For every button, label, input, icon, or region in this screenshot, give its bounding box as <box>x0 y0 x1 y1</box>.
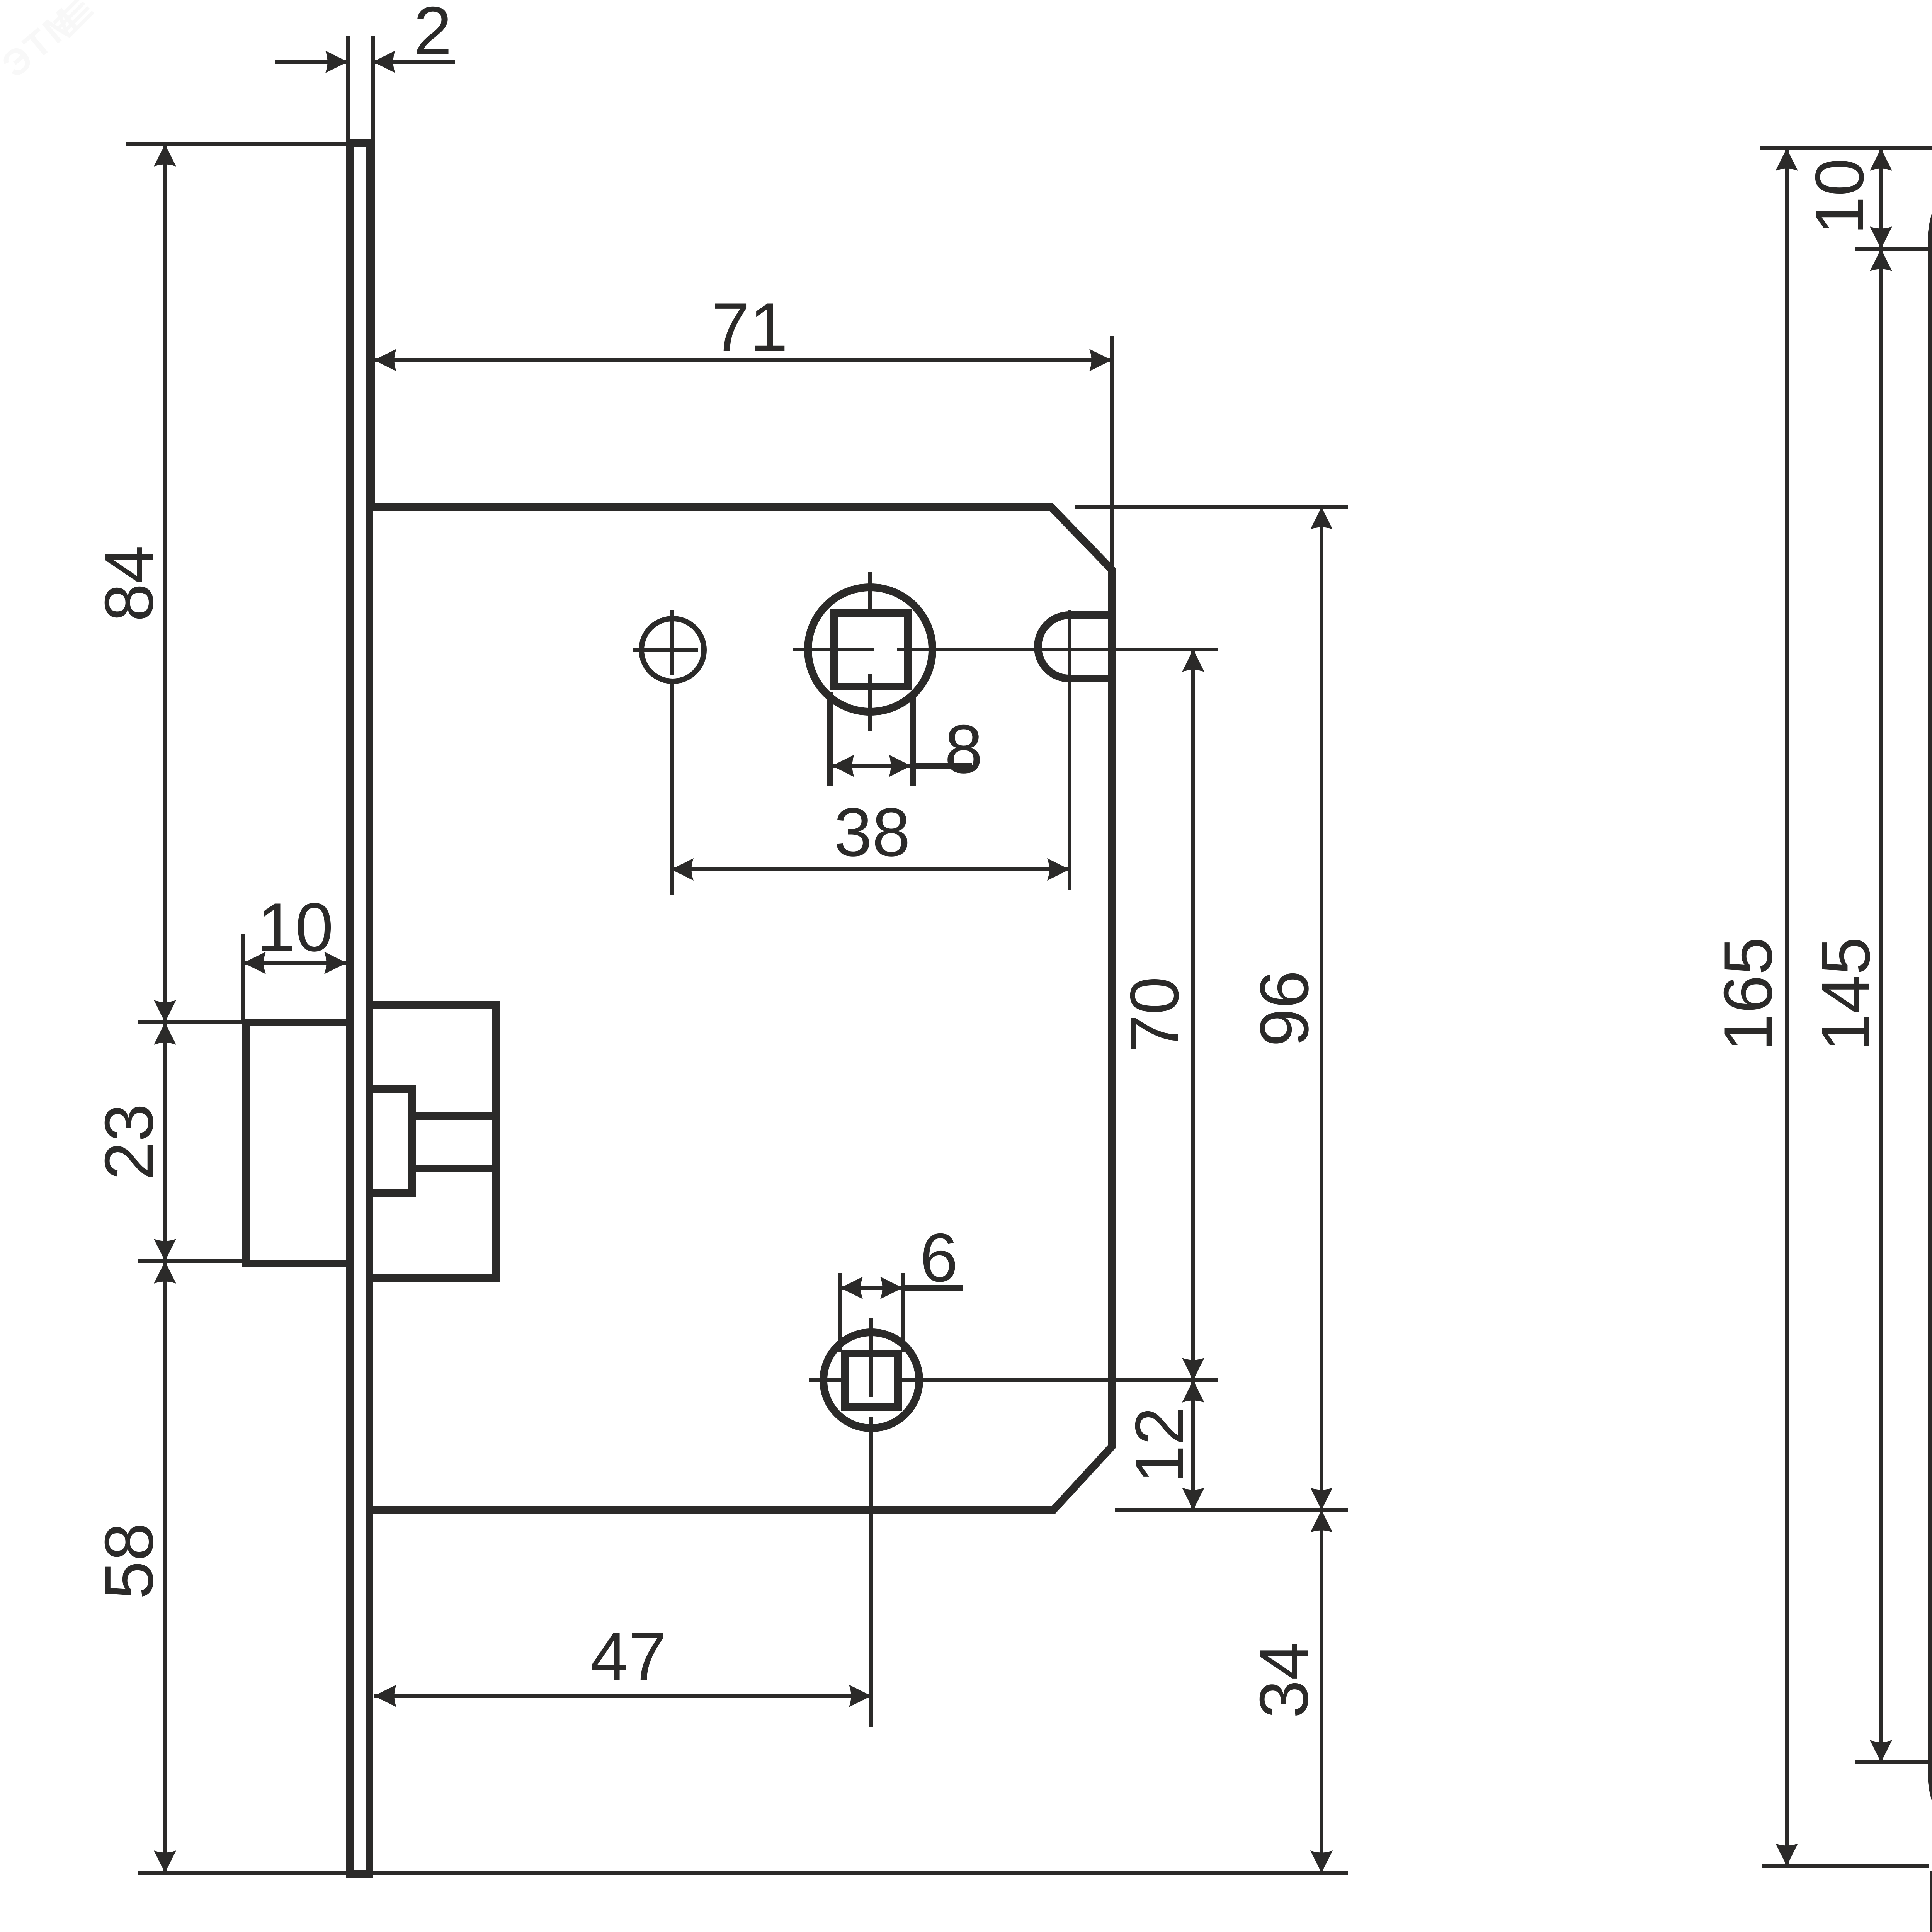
svg-text:71: 71 <box>711 289 788 366</box>
svg-text:10: 10 <box>257 889 333 966</box>
svg-text:10: 10 <box>1801 158 1878 235</box>
svg-text:8: 8 <box>945 711 983 787</box>
svg-text:34: 34 <box>1245 1642 1322 1718</box>
svg-text:70: 70 <box>1116 976 1193 1053</box>
svg-text:47: 47 <box>590 1618 667 1695</box>
svg-text:12: 12 <box>1121 1407 1198 1483</box>
svg-text:6: 6 <box>920 1219 958 1296</box>
svg-text:58: 58 <box>90 1523 167 1599</box>
svg-text:2: 2 <box>414 0 452 69</box>
svg-text:38: 38 <box>834 794 910 871</box>
svg-text:96: 96 <box>1246 970 1323 1047</box>
svg-text:165: 165 <box>1709 937 1786 1052</box>
svg-text:145: 145 <box>1807 937 1884 1052</box>
svg-text:23: 23 <box>90 1104 167 1180</box>
svg-text:84: 84 <box>90 545 167 622</box>
